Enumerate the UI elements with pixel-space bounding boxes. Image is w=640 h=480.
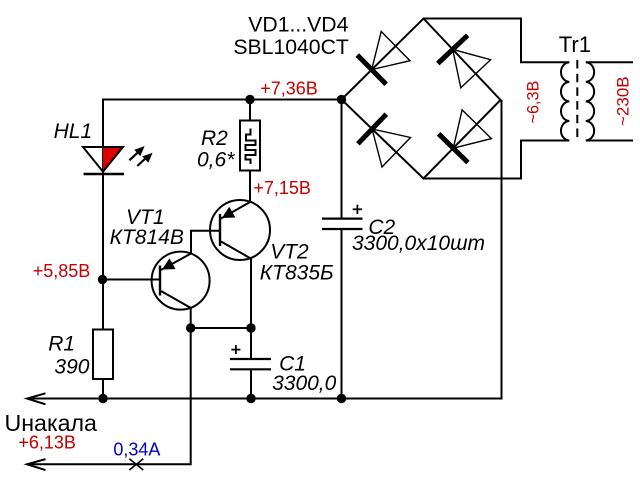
svg-text:~6,3В: ~6,3В [524,81,542,124]
svg-text:HL1: HL1 [54,120,93,143]
svg-text:0,6*: 0,6* [197,148,235,171]
svg-text:3300,0х10шт: 3300,0х10шт [352,232,485,255]
svg-text:+7,36В: +7,36В [260,79,318,99]
svg-text:0,34А: 0,34А [113,440,160,460]
svg-text:SBL1040CT: SBL1040CT [233,36,348,59]
svg-text:КТ814В: КТ814В [110,226,184,249]
svg-text:VT2: VT2 [270,241,309,264]
svg-text:390: 390 [54,356,89,379]
svg-text:Uнакала: Uнакала [5,410,98,436]
svg-text:+5,85В: +5,85В [33,261,91,281]
svg-text:Tr1: Tr1 [559,32,591,57]
svg-text:VD1...VD4: VD1...VD4 [248,14,348,37]
svg-text:КТ835Б: КТ835Б [260,261,334,284]
svg-text:R2: R2 [201,127,228,150]
svg-text:+7,15В: +7,15В [253,178,311,198]
svg-text:R1: R1 [48,333,75,356]
svg-text:~230В: ~230В [614,76,633,126]
svg-text:3300,0: 3300,0 [272,372,337,395]
